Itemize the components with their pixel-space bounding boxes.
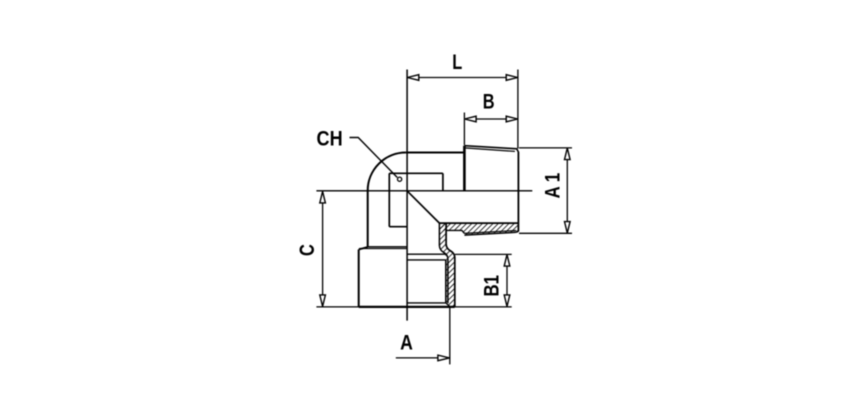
dimension A1 arrow top xyxy=(565,148,571,160)
body elbow outer arc xyxy=(368,153,406,191)
hex flat right edge xyxy=(442,173,444,191)
dimension B1 arrow top xyxy=(504,255,510,267)
body left edge xyxy=(367,191,369,247)
dimension L arrow left xyxy=(407,75,419,81)
wire B extension left xyxy=(463,113,465,146)
node centerline horizontal xyxy=(316,190,532,192)
female thread bottom line xyxy=(407,302,445,304)
dimension B1 arrow bottom xyxy=(504,295,510,307)
male thread top root xyxy=(464,148,515,152)
svg-text:A 1: A 1 xyxy=(542,173,565,199)
dimension C arrow bottom xyxy=(320,295,326,307)
body flare line bottom xyxy=(359,248,407,250)
male thread bottom crest xyxy=(464,232,516,235)
dimension C line xyxy=(322,203,324,295)
wire CH leader xyxy=(350,138,398,178)
body top edge xyxy=(406,152,465,154)
dimension A1 arrow bottom xyxy=(565,222,571,234)
male thread top crest xyxy=(464,146,518,152)
female thread shoulder lower xyxy=(407,259,445,261)
wire B1 extension top xyxy=(455,253,512,255)
hex flat top edge xyxy=(389,172,443,174)
node centerline vertical xyxy=(406,70,408,321)
svg-text:B: B xyxy=(483,89,495,112)
svg-text:A: A xyxy=(400,331,413,355)
hex flat bottom edge xyxy=(389,226,407,228)
dimension C arrow top xyxy=(320,191,326,203)
thread base heavy line xyxy=(463,146,466,191)
dimension L line xyxy=(419,77,507,79)
svg-text:B1: B1 xyxy=(481,275,504,297)
male thread bottom root xyxy=(464,231,516,234)
male bore line xyxy=(439,222,517,224)
body flare slant xyxy=(359,247,368,250)
dimension A1 line xyxy=(566,160,568,222)
male tip right edge xyxy=(516,152,518,233)
hatch female wall xyxy=(439,223,454,307)
body flare line top xyxy=(368,246,408,248)
dimension A arrow xyxy=(438,355,450,361)
miter diagonal xyxy=(407,191,439,223)
female wall outer edge xyxy=(446,223,455,307)
dimension B arrow left xyxy=(465,116,477,122)
dimension B line xyxy=(476,118,507,120)
dimension L arrow right xyxy=(506,75,518,81)
wire A1 extension bottom xyxy=(519,232,572,234)
wire A1 extension top xyxy=(519,147,572,149)
svg-text:L: L xyxy=(452,50,462,73)
male wall lower edge xyxy=(446,230,464,233)
female thread shoulder upper xyxy=(407,253,445,255)
dimension B arrow right xyxy=(506,116,518,122)
dimension A line xyxy=(396,357,438,359)
svg-text:C: C xyxy=(295,244,318,256)
hex flat left edge xyxy=(388,173,390,226)
body socket bottom xyxy=(316,306,358,308)
wire L extension right xyxy=(517,70,519,149)
wire A extension right xyxy=(449,307,451,364)
female mouth chamfer xyxy=(446,303,450,307)
female bore inner edge xyxy=(439,223,448,303)
female thread crest xyxy=(445,260,447,303)
body socket left edge xyxy=(358,250,360,307)
svg-text:CH: CH xyxy=(317,127,343,151)
node CH leader circle xyxy=(398,177,402,181)
dimension B1 line xyxy=(506,266,508,295)
hatch male wall bottom xyxy=(439,223,517,235)
